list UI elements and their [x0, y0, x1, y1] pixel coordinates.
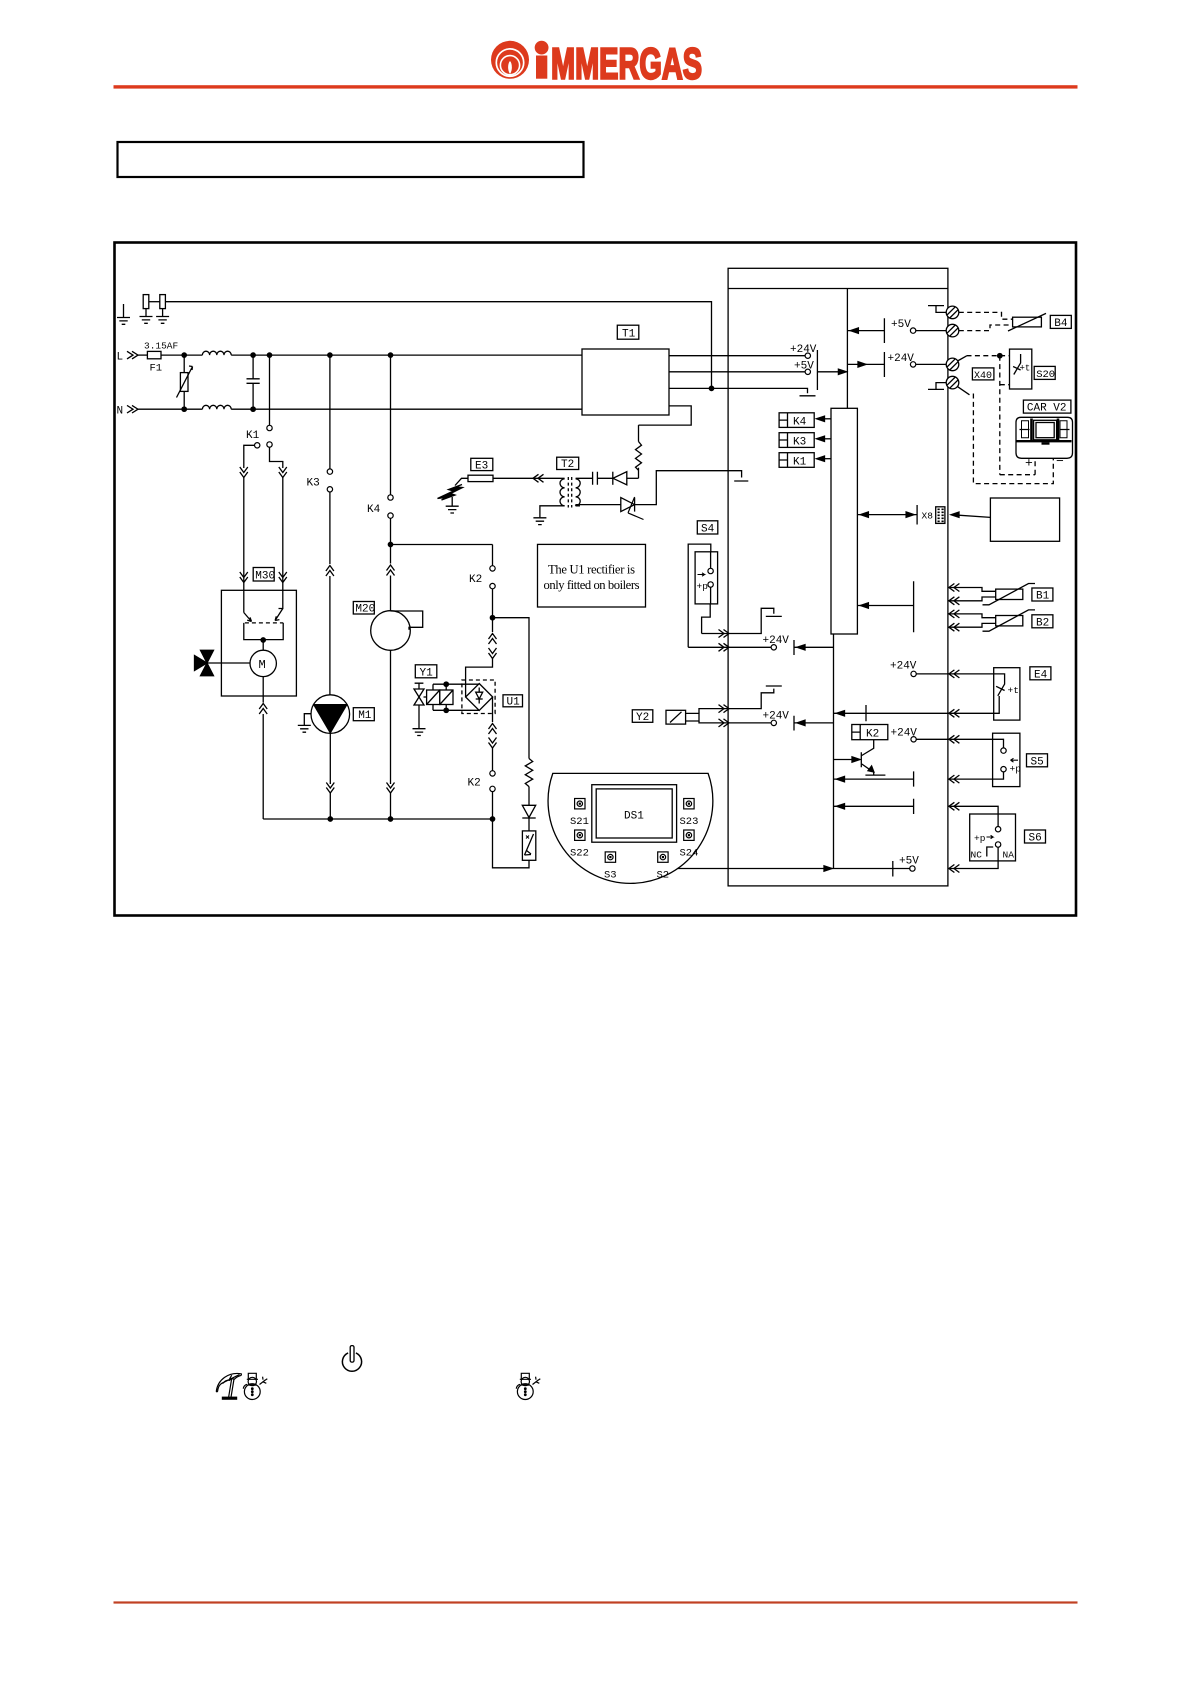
room thermostat S20 [1010, 349, 1032, 389]
sensor B4 dashed leads [959, 312, 1013, 330]
mode icon winter snowman (summer-winter pair) [243, 1373, 267, 1399]
bottom red rule [114, 1601, 1078, 1603]
svg-text:DS1: DS1 [624, 811, 644, 823]
PCB connector strip [831, 408, 857, 634]
button S21 [570, 799, 589, 829]
svg-text:S4: S4 [701, 524, 715, 536]
dashed leads X40/S20/CAR [958, 356, 967, 361]
E4 thermostat [834, 661, 1020, 722]
T1 transformer [582, 349, 669, 415]
svg-text:+p: +p [697, 581, 709, 592]
earth ground symbol top-left [117, 304, 130, 324]
contact K2 lower [468, 771, 496, 819]
X40 label [972, 368, 994, 382]
spark electrode E3 [455, 475, 493, 485]
svg-text:F1: F1 [150, 363, 163, 375]
wire S6 lower +5V [728, 856, 998, 877]
svg-text:T1: T1 [622, 329, 636, 341]
diode flame branch [522, 805, 535, 831]
transistor K2 driver [834, 740, 886, 775]
X8 connector icon [936, 507, 945, 524]
svg-text:S21: S21 [570, 816, 589, 828]
svg-text:Y1: Y1 [420, 667, 434, 679]
wire L line to T1 [231, 354, 582, 356]
note box U1 [538, 544, 646, 607]
svg-text:E4: E4 [1034, 669, 1048, 681]
svg-text:M20: M20 [355, 604, 375, 616]
svg-text:K2: K2 [866, 729, 879, 741]
node flame-branch junction [490, 616, 494, 620]
mode icon standby power [342, 1346, 361, 1372]
ground at electrode [446, 497, 459, 513]
PCB top strip line [728, 288, 948, 290]
svg-text:N: N [117, 405, 124, 417]
sensor B4 external probe [1008, 313, 1046, 331]
resistor ignition feed [636, 425, 642, 478]
svg-text:Y2: Y2 [636, 712, 649, 724]
S4 label [697, 521, 718, 536]
node K3 tap [328, 353, 332, 357]
wire T1 bottom step [639, 406, 692, 425]
S5 label [1027, 754, 1048, 769]
wire pump to bottom bus [326, 733, 334, 819]
button S2 [657, 852, 670, 882]
svg-text:−: − [1056, 454, 1064, 469]
T1 label [617, 325, 639, 340]
S4 air pressure switch [688, 544, 717, 647]
svg-text:S3: S3 [604, 870, 617, 882]
top red rule [114, 85, 1078, 88]
button S3 [604, 852, 617, 882]
capacitor across L-N [247, 355, 260, 409]
svg-text:S2: S2 [657, 870, 670, 882]
svg-text:+p: +p [974, 833, 986, 844]
wire T1 out common [669, 388, 816, 395]
svg-text:M1: M1 [358, 710, 372, 722]
pump M1 [311, 695, 350, 734]
node K4 tap [388, 353, 392, 357]
svg-text:+24V: +24V [890, 661, 917, 673]
screw terminal 2 +5V [847, 318, 958, 343]
svg-text:+: + [1025, 456, 1033, 471]
fan M20 [371, 611, 423, 651]
mode icon summer umbrella [216, 1373, 241, 1398]
svg-text:+24V: +24V [763, 711, 790, 723]
svg-text:E3: E3 [475, 460, 488, 472]
IMMERGAS logo mark [491, 41, 529, 79]
E4 label [1030, 667, 1051, 682]
diode ignition [613, 472, 639, 485]
svg-text:B4: B4 [1054, 318, 1068, 330]
wire K3 to pump [326, 492, 334, 695]
LED indicator [493, 819, 536, 868]
svg-text:+24V: +24V [790, 344, 817, 356]
E3 label [471, 458, 493, 472]
svg-text:M: M [259, 658, 266, 672]
contact K3 [307, 355, 333, 492]
svg-text:NA: NA [1003, 850, 1015, 861]
wire M30 feed left [240, 467, 248, 590]
relay coil K3 [779, 433, 831, 449]
sensor common bar B1/B2 [857, 581, 913, 632]
contact K4 [367, 355, 393, 518]
screw terminal 1 [928, 306, 959, 319]
resistor flame-signal branch [493, 618, 533, 806]
svg-text:CAR V2: CAR V2 [1027, 403, 1067, 415]
+5V supply terminal from T1 [794, 360, 814, 374]
svg-text:+24V: +24V [888, 353, 915, 365]
button S23 [680, 799, 699, 829]
external connector box [951, 498, 1060, 541]
node X40 dashed junction [998, 354, 1002, 358]
S5 water pressure switch [993, 733, 1022, 786]
svg-text:K4: K4 [793, 417, 807, 429]
svg-text:S23: S23 [680, 816, 699, 828]
bottom bus wire [263, 818, 492, 820]
svg-text:S6: S6 [1029, 833, 1042, 845]
U1 label [503, 695, 523, 709]
contact K1 (relay contacts) [244, 355, 283, 468]
wire T1 out 24V [669, 355, 805, 357]
M1 label [353, 708, 374, 723]
node junction earth/T1 third lead [709, 386, 713, 390]
S6 label [1025, 830, 1046, 845]
wire S4 sense to PCB [702, 608, 782, 637]
wire M30 feed right [279, 467, 287, 590]
PCB lower bus [833, 634, 835, 869]
Y1 coil rails [433, 682, 479, 713]
svg-text:+t: +t [1008, 685, 1019, 696]
svg-text:B1: B1 [1036, 591, 1050, 603]
PCB main board outline [728, 268, 948, 886]
svg-text:K2: K2 [469, 574, 482, 586]
ground at T2 [533, 518, 546, 525]
svg-text:U1: U1 [507, 697, 521, 709]
svg-text:K4: K4 [367, 504, 381, 516]
node L input [117, 351, 139, 363]
wire T1 out 5V [669, 371, 805, 373]
svg-text:+t: +t [1020, 364, 1031, 374]
Y1 label [415, 665, 437, 680]
wire electrode to T2 [493, 474, 561, 482]
U1 rectifier bridge diamond [466, 684, 493, 711]
wire L line [161, 354, 202, 356]
node capacitor taps [251, 353, 255, 357]
varistor across L-N [177, 355, 193, 409]
sensor B1 [948, 584, 1035, 605]
M20 label [353, 602, 375, 616]
screw terminal 3 +24V [847, 352, 958, 377]
relay coil K1 [779, 453, 831, 469]
svg-text:K3: K3 [793, 437, 806, 449]
svg-text:K1: K1 [246, 430, 260, 442]
wire to gas valve Y1/U1 [466, 618, 497, 697]
thyristor ignition [576, 471, 749, 520]
relay coil K4 [779, 413, 831, 429]
wire N line to T1 [231, 408, 582, 410]
svg-text:+24V: +24V [763, 635, 790, 647]
svg-text:MMERGAS: MMERGAS [551, 41, 702, 89]
suppression capacitor C-left to earth [140, 295, 153, 324]
wire DS1 to PCB [678, 868, 729, 870]
button S22 [570, 830, 589, 860]
PCB internal supply bus [846, 289, 848, 409]
B4 label [1050, 315, 1071, 330]
node varistor taps [182, 353, 186, 357]
M30 label [253, 568, 275, 583]
svg-text:+p: +p [1010, 764, 1022, 775]
svg-text:X8: X8 [922, 511, 934, 522]
wire M30 to bottom bus [259, 696, 267, 819]
M30 three-way valve unit box [221, 590, 296, 696]
node N input [117, 405, 139, 417]
wire K4 to fan and gas-valve branch [387, 518, 493, 611]
svg-text:L: L [117, 351, 124, 363]
spark flame symbol [438, 485, 463, 501]
wire S4 +24V [688, 635, 833, 655]
wire fan to bottom bus [387, 651, 395, 820]
Y1 gas valve coils [427, 690, 453, 705]
CAR V2 label [1023, 400, 1071, 415]
capacitor ignition [593, 472, 613, 485]
svg-text:+5V: +5V [794, 360, 814, 372]
button S24 [680, 830, 699, 860]
svg-text:X40: X40 [974, 371, 992, 382]
T2 label [557, 457, 579, 471]
svg-text:K2: K2 [468, 778, 481, 790]
svg-text:The U1 rectifier is: The U1 rectifier is [548, 563, 635, 577]
wire N line [138, 408, 202, 410]
ground at pump [298, 714, 311, 733]
gas valve symbol [414, 683, 427, 705]
relay coil K2 with driver [852, 725, 888, 741]
svg-text:+5V: +5V [899, 856, 919, 868]
svg-text:3.15AF: 3.15AF [144, 341, 179, 352]
svg-text:+5V: +5V [891, 319, 911, 331]
Y2 label [632, 710, 653, 724]
wire S5 return [834, 771, 993, 786]
diagram border frame [115, 243, 1077, 916]
ground at gas valve [413, 705, 426, 736]
svg-text:only fitted on boilers: only fitted on boilers [544, 578, 640, 592]
DS1 display panel outline [548, 773, 713, 883]
svg-text:K3: K3 [307, 478, 320, 490]
svg-text:S5: S5 [1031, 756, 1044, 768]
inductor L-line filter choke [202, 351, 231, 355]
three-way valve symbol [195, 650, 251, 675]
svg-text:S20: S20 [1036, 369, 1055, 381]
svg-text:NC: NC [971, 850, 983, 861]
sensor B2 [948, 610, 1035, 631]
S6 safety pressure switch [970, 814, 1016, 861]
node bus junctions [328, 817, 332, 821]
B2 label [1032, 615, 1053, 630]
U1 rectifier dashed box [462, 680, 495, 714]
B1 label [1032, 588, 1053, 603]
mode icon winter snowman (winter only) [516, 1373, 540, 1399]
svg-text:K1: K1 [793, 457, 807, 469]
svg-text:B2: B2 [1036, 617, 1049, 629]
svg-text:S24: S24 [680, 848, 699, 860]
wire earth rail to PCB column [165, 302, 711, 389]
wire U1 output down [489, 697, 497, 771]
T2 ignition transformer [540, 477, 593, 517]
svg-text:S22: S22 [570, 848, 589, 860]
fuse F1 3.15AF [138, 341, 179, 375]
Y2 modulating coil [666, 686, 834, 731]
svg-text:T2: T2 [561, 459, 574, 471]
svg-text:M30: M30 [255, 570, 275, 582]
title box (empty) [118, 142, 584, 177]
CAR V2 remote control icon [1016, 417, 1073, 470]
contact K2 upper [469, 545, 495, 618]
IMMERGAS logo text [535, 41, 702, 89]
node K1 tap [267, 353, 271, 357]
inductor N-line filter choke [202, 405, 231, 409]
wire S6 upper [834, 799, 999, 814]
connector bar T1 feeds [817, 350, 847, 390]
suppression capacitor C-right to earth [156, 295, 169, 324]
+24V supply terminal from T1 [790, 344, 817, 358]
DS1 display [592, 785, 677, 843]
X8 connector link [857, 505, 933, 525]
wire earth link between capacitors [149, 301, 160, 303]
S20 label [1034, 366, 1055, 380]
+24V to S5 [891, 728, 993, 744]
screw terminal 4 [928, 376, 959, 389]
